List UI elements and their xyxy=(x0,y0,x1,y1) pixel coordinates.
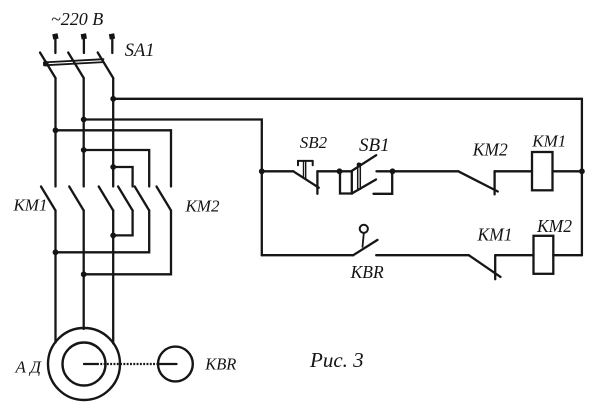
svg-text:Рис. 3: Рис. 3 xyxy=(309,348,364,372)
wire phase C to KM2 pole 1 xyxy=(113,167,132,187)
wire motor lead C lower vertical xyxy=(112,211,114,344)
node SB1 left junction xyxy=(337,168,343,174)
button SB1 right fixed bracket xyxy=(374,171,393,194)
wire KM2 pole 1 output to motor lead C xyxy=(113,211,132,236)
wire KM1 interlock to coil KM2 xyxy=(495,254,533,256)
contactor KM2 main contact pole 2 xyxy=(135,187,150,211)
wire KBR to KM1 interlock xyxy=(376,254,469,256)
speed relay KBR circle xyxy=(158,347,193,382)
switch SA1 blade pole 2 xyxy=(68,53,84,79)
node KM2 pole3 output junction xyxy=(81,271,87,277)
node phase B feed junction xyxy=(81,117,87,123)
wire terminal L1 stub xyxy=(54,39,56,53)
wire control right rail xyxy=(581,99,583,255)
svg-text:SB1: SB1 xyxy=(359,135,390,156)
switch SA1 blade pole 3 xyxy=(98,53,114,79)
wire rung2 from left rail to KBR xyxy=(262,254,353,256)
button SB1 lower blade xyxy=(352,180,376,194)
wire motor lead A lower vertical xyxy=(54,211,56,343)
svg-text:КМ1: КМ1 xyxy=(13,196,48,215)
wire rung1 from left rail to SB2 xyxy=(262,170,294,172)
contactor KM1 main contact pole 2 xyxy=(69,187,84,211)
contact KBR actuator circle xyxy=(360,225,368,233)
terminal L2 xyxy=(81,33,87,39)
wire phase C upper vertical xyxy=(112,78,114,187)
svg-text:KBR: KBR xyxy=(204,354,236,373)
coil KM1 xyxy=(532,152,553,190)
svg-text:КМ2: КМ2 xyxy=(185,197,220,216)
svg-text:КМ2: КМ2 xyxy=(536,216,572,236)
shaft solid segment at motor xyxy=(84,363,97,365)
contactor KM1 main contact pole 3 xyxy=(99,187,114,211)
wire coil KM1 to right rail xyxy=(553,170,582,172)
contact KM1 NC interlock blade xyxy=(469,255,501,277)
contact KBR NO blade xyxy=(353,240,377,255)
wire control feed from phase B to left rail xyxy=(84,120,262,256)
button SB1 upper blade xyxy=(352,155,376,171)
wire phase B upper vertical xyxy=(83,78,85,187)
svg-text:SB2: SB2 xyxy=(300,133,328,152)
svg-text:KBR: KBR xyxy=(350,262,384,282)
svg-text:А Д: А Д xyxy=(15,358,43,377)
svg-text:~220 В: ~220 В xyxy=(51,9,103,29)
button SB2 actuator bar xyxy=(298,161,313,165)
contactor KM1 main contact pole 1 xyxy=(41,187,56,211)
node phase B KM2 junction xyxy=(81,147,87,153)
coil KM2 xyxy=(534,236,554,274)
wire control left rail junction dot xyxy=(259,168,265,174)
svg-text:КМ1: КМ1 xyxy=(477,225,513,245)
wire control feed top from phase C to right rail xyxy=(113,98,582,100)
button SB2 NC blade xyxy=(293,171,319,187)
shaft solid segment at relay xyxy=(159,363,177,365)
switch SA1 tie bar pivot blob xyxy=(43,61,49,67)
button SB1 right lead xyxy=(377,170,393,172)
switch SA1 blade pole 1 xyxy=(40,53,56,79)
wire SB2 to SB1 xyxy=(317,170,351,172)
svg-text:SA1: SA1 xyxy=(125,41,155,61)
terminal L1 xyxy=(52,33,58,39)
node phase A crossover junction xyxy=(53,127,59,133)
contactor KM2 main contact pole 3 xyxy=(157,187,172,211)
node phase C KM2 junction xyxy=(110,164,116,170)
wire SB1 to KM2 interlock xyxy=(393,170,459,172)
button SB1 movable bridge double bar xyxy=(358,164,361,190)
node KM2 pole1 output junction xyxy=(110,233,116,239)
wire KM2 pole 3 output to motor lead B xyxy=(84,211,171,275)
contact KM2 NC interlock tick xyxy=(493,171,495,194)
button SB2 actuator stem xyxy=(304,161,306,179)
wire KM2 pole 2 output to motor lead A xyxy=(56,211,150,253)
button SB2 fixed contact tick xyxy=(316,171,318,194)
shaft dotted coupling line xyxy=(97,363,159,365)
motor AD rotor circle xyxy=(63,343,106,386)
button SB1 left fixed bracket xyxy=(340,171,352,193)
svg-text:КМ1: КМ1 xyxy=(531,132,566,151)
wire motor lead B lower vertical xyxy=(83,211,85,330)
terminal L3 xyxy=(109,33,115,39)
node SB1 bridge top blob xyxy=(357,163,361,167)
node right rail rung1 junction xyxy=(579,168,585,174)
wire terminal L2 stub xyxy=(83,39,85,53)
wire phase B to KM2 pole 2 xyxy=(84,150,150,187)
switch SA1 tie bar xyxy=(44,59,104,65)
node KM2 pole2 output junction xyxy=(53,249,59,255)
wire terminal L3 stub xyxy=(111,39,113,53)
wire KM2 interlock to coil KM1 xyxy=(495,170,532,172)
contactor KM2 main contact pole 1 xyxy=(118,187,133,211)
wire crossover phase A to KM2 pole 3 xyxy=(56,130,172,186)
node SB1 right junction xyxy=(390,168,396,174)
svg-text:КМ2: КМ2 xyxy=(472,140,508,160)
wire coil KM2 to right rail xyxy=(553,254,582,256)
node phase C feed junction xyxy=(110,96,116,102)
contact KM2 NC interlock blade xyxy=(458,171,498,191)
wire phase A upper vertical xyxy=(54,78,56,187)
contact KBR actuator link xyxy=(363,233,364,247)
motor AD stator circle xyxy=(48,328,120,400)
contact KM1 NC interlock tick xyxy=(494,255,496,279)
